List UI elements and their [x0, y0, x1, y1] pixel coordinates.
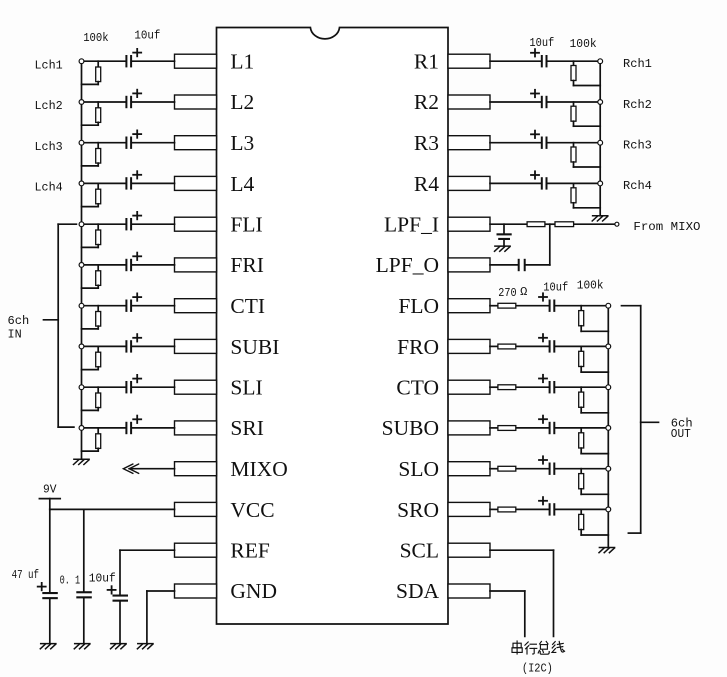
- capacitor 10uf FRO (+ left): [539, 334, 555, 353]
- capacitor 10uf (REF to ground): [108, 550, 128, 643]
- label 47 uf: [12, 568, 39, 582]
- svg-text:SLO: SLO: [398, 457, 439, 481]
- node SUBI on rail: [79, 344, 84, 349]
- label Rch3: [623, 139, 652, 153]
- resistor 100k CTO (to rail): [579, 387, 609, 413]
- pin R1 (right pin box): [448, 54, 490, 68]
- ground (GND pin): [137, 644, 153, 649]
- capacitor 10uf L1 (series coupling, + right): [125, 49, 141, 68]
- wire SLI input row: [82, 386, 175, 388]
- op-amp/audio-processor IC U1 body with pin-1 notch: [217, 28, 449, 625]
- pin label MIXO: [230, 457, 287, 481]
- svg-text:100k: 100k: [577, 279, 604, 293]
- pin label FLI: [230, 213, 262, 237]
- svg-text:R3: R3: [414, 131, 439, 155]
- pin SLO (right pin box): [448, 462, 490, 476]
- node SLO on rail: [606, 466, 611, 471]
- capacitor 10uf FRI (series coupling, + right): [125, 253, 141, 272]
- ground (0.1 cap): [74, 644, 90, 649]
- pin label CTO: [396, 376, 439, 400]
- resistor 100k L4 (to rail): [82, 183, 101, 206]
- node CTO on rail: [606, 385, 611, 390]
- svg-text:R1: R1: [414, 50, 439, 74]
- pin SDA (right pin box): [448, 584, 490, 598]
- resistor 100k SRO (to rail): [579, 509, 609, 535]
- pin L4 (left pin box): [175, 176, 217, 190]
- pin CTI (left pin box): [175, 299, 217, 313]
- pin label SLI: [230, 376, 262, 400]
- pin label L4: [230, 172, 254, 196]
- capacitor (LPF_O feedback): [518, 259, 526, 271]
- pin SUBO (right pin box): [448, 421, 490, 435]
- resistor 100k SRI (to rail): [82, 428, 101, 451]
- resistor 100k CTI (to rail): [82, 306, 101, 329]
- wire R3 row: [490, 142, 600, 144]
- svg-text:LPF_I: LPF_I: [384, 213, 439, 237]
- pin label SDA: [396, 579, 439, 603]
- wire L2 input row: [82, 101, 175, 103]
- label 100k (output resistors): [577, 279, 604, 293]
- pin label SLO: [398, 457, 439, 481]
- svg-text:Rch2: Rch2: [623, 98, 652, 112]
- ground (left rail): [74, 459, 90, 464]
- svg-text:SLI: SLI: [230, 376, 262, 400]
- wire CTI input row: [82, 305, 175, 307]
- resistor 100k R2 (to rail): [571, 102, 600, 126]
- node L1 on rail: [79, 59, 84, 64]
- node SLI on rail: [79, 385, 84, 390]
- resistor 100k R3 (to rail): [571, 143, 600, 167]
- 6ch OUT bracket: [622, 306, 659, 533]
- pin label LPF_I: [384, 213, 439, 237]
- node SRI on rail: [79, 426, 84, 431]
- wire SLO row: [490, 468, 608, 470]
- capacitor 47uf (9V rail to ground): [38, 509, 58, 643]
- node FRI on rail: [79, 263, 84, 268]
- label 10uf (REF cap): [89, 571, 116, 585]
- wire SUBO row: [490, 427, 608, 429]
- resistor 100k L3 (to rail): [82, 143, 101, 166]
- label serial bus (Chinese: chuan xing zong xian) drawn as paths: [512, 641, 565, 654]
- svg-text:Lch3: Lch3: [35, 140, 63, 154]
- pin L1 (left pin box): [175, 54, 217, 68]
- wire LPF_O row: [490, 264, 550, 266]
- node FRO on rail: [606, 344, 611, 349]
- node FLI on rail: [79, 222, 84, 227]
- wire MIXO output with double-chevron arrow: [123, 464, 174, 473]
- label Lch3: [35, 140, 63, 154]
- label 10uf (left capacitors): [134, 29, 160, 43]
- output ground rail: [607, 306, 609, 548]
- label Lch2: [35, 99, 63, 113]
- capacitor 10uf SRO (+ left): [539, 497, 555, 516]
- wire R1 row: [490, 60, 600, 62]
- svg-text:10uf: 10uf: [529, 36, 554, 50]
- svg-text:Lch1: Lch1: [35, 58, 63, 72]
- pin label VCC: [230, 498, 274, 522]
- 6ch IN bracket: [44, 224, 77, 427]
- node SRO on rail: [606, 507, 611, 512]
- svg-text:CTI: CTI: [230, 294, 265, 318]
- resistor 100k SUBI (to rail): [82, 346, 101, 369]
- pin SLI (left pin box): [175, 380, 217, 394]
- svg-text:Lch4: Lch4: [35, 181, 63, 195]
- svg-text:FLO: FLO: [398, 294, 439, 318]
- pin R3 (right pin box): [448, 136, 490, 150]
- capacitor 10uf FLI (series coupling, + right): [125, 212, 141, 231]
- capacitor (LPF_I to ground): [497, 224, 512, 246]
- resistor 100k FRI (to rail): [82, 265, 101, 288]
- pin label LPF_O: [376, 253, 439, 277]
- pin label R1: [414, 50, 439, 74]
- node L3 on rail: [79, 140, 84, 145]
- pin label SUBI: [230, 335, 279, 359]
- node SUBO on rail: [606, 426, 611, 431]
- pin label GND: [230, 579, 277, 603]
- label 10uf (right capacitors): [529, 36, 554, 50]
- pin SRI (left pin box): [175, 421, 217, 435]
- ground (47uf): [40, 644, 56, 649]
- resistor 270ohm FLO (series, horizontal): [498, 303, 516, 308]
- capacitor 10uf SUBI (series coupling, + right): [125, 334, 141, 353]
- resistor 270ohm SRO (series, horizontal): [498, 507, 516, 512]
- label 0.1: [60, 573, 81, 587]
- label 100k (right resistors): [570, 37, 597, 51]
- pin FLI (left pin box): [175, 217, 217, 231]
- ground (right Rch rail): [592, 216, 608, 221]
- svg-text:VCC: VCC: [230, 498, 274, 522]
- resistor 270ohm CTO (series, horizontal): [498, 385, 516, 390]
- pin label FRI: [230, 253, 263, 277]
- svg-text:0. 1: 0. 1: [60, 573, 81, 587]
- resistor (LPF_I second, horizontal): [555, 222, 574, 227]
- pin label L1: [230, 50, 254, 74]
- pin label R4: [414, 172, 439, 196]
- svg-text:47 uf: 47 uf: [12, 568, 39, 582]
- pin SRO (right pin box): [448, 502, 490, 516]
- capacitor 10uf L4 (series coupling, + right): [125, 171, 141, 189]
- pin FRI (left pin box): [175, 258, 217, 272]
- wire R4 row: [490, 182, 600, 184]
- wire GND row: [147, 591, 175, 644]
- pin label R3: [414, 131, 439, 155]
- pin MIXO (left pin box): [175, 462, 217, 476]
- wire REF row: [120, 549, 175, 551]
- pin label L3: [230, 131, 254, 155]
- svg-text:FRO: FRO: [397, 335, 439, 359]
- resistor 100k FLO (to rail): [579, 306, 609, 332]
- ground (output rail): [599, 548, 615, 553]
- label 10uf (output capacitors): [543, 280, 568, 294]
- wire SDA to serial bus: [490, 591, 525, 636]
- node Rch1 on rail: [598, 59, 603, 64]
- resistor 100k SLI (to rail): [82, 387, 101, 410]
- svg-text:From MIXO: From MIXO: [633, 220, 700, 234]
- label Rch4: [623, 179, 652, 193]
- svg-text:Rch1: Rch1: [623, 57, 652, 71]
- pin label FRO: [397, 335, 439, 359]
- pin LPF_O (right pin box): [448, 258, 490, 272]
- svg-text:L4: L4: [230, 172, 254, 196]
- capacitor 10uf SUBO (+ left): [539, 416, 555, 435]
- pin FLO (right pin box): [448, 299, 490, 313]
- capacitor 10uf R2 (+ left): [531, 90, 548, 108]
- resistor (LPF_I first, horizontal): [527, 222, 545, 227]
- svg-text:SUBI: SUBI: [230, 335, 279, 359]
- svg-text:L3: L3: [230, 131, 254, 155]
- svg-text:270: 270: [498, 286, 516, 300]
- svg-text:SUBO: SUBO: [382, 416, 439, 440]
- svg-text:R2: R2: [414, 90, 439, 114]
- capacitor 10uf SLO (+ left): [539, 456, 555, 475]
- right Rch ground rail: [599, 61, 601, 216]
- resistor 100k FRO (to rail): [579, 346, 609, 372]
- capacitor 10uf L2 (series coupling, + right): [125, 90, 141, 109]
- ground (REF cap): [111, 644, 127, 649]
- svg-text:Rch4: Rch4: [623, 179, 652, 193]
- wire FRO row: [490, 345, 608, 347]
- left input ground rail: [81, 61, 83, 459]
- resistor 270ohm SLO (series, horizontal): [498, 466, 516, 471]
- capacitor 10uf R1 (+ left): [531, 49, 548, 67]
- svg-text:MIXO: MIXO: [230, 457, 287, 481]
- pin R2 (right pin box): [448, 95, 490, 109]
- pin VCC (left pin box): [175, 502, 217, 516]
- wire R2 row: [490, 101, 600, 103]
- pin SUBI (left pin box): [175, 339, 217, 353]
- pin L3 (left pin box): [175, 136, 217, 150]
- capacitor 10uf CTI (series coupling, + right): [125, 293, 141, 312]
- wire LPF_I row to From MIXO terminal: [490, 223, 615, 225]
- svg-text:Rch3: Rch3: [623, 139, 652, 153]
- node Rch3 on rail: [598, 140, 603, 145]
- node L4 on rail: [79, 181, 84, 186]
- svg-text:10uf: 10uf: [134, 29, 160, 43]
- resistor 100k L2 (to rail): [82, 102, 101, 125]
- node FLO on rail: [606, 303, 611, 308]
- svg-text:Ω: Ω: [520, 285, 527, 299]
- pin label R2: [414, 90, 439, 114]
- pin label SRO: [397, 498, 439, 522]
- label 100k (left resistors): [83, 31, 108, 45]
- label 6ch OUT: [671, 417, 693, 442]
- resistor 100k L1 (to rail): [82, 61, 101, 84]
- resistor 270ohm SUBO (series, horizontal): [498, 426, 516, 431]
- label Rch2: [623, 98, 652, 112]
- pin GND (left pin box): [175, 584, 217, 598]
- capacitor 10uf L3 (series coupling, + right): [125, 130, 141, 149]
- svg-text:100k: 100k: [570, 37, 597, 51]
- capacitor 10uf SRI (series coupling, + right): [125, 416, 141, 435]
- node From MIXO terminal: [615, 222, 619, 226]
- capacitor 10uf CTO (+ left): [539, 375, 555, 394]
- wire FLO row: [490, 305, 608, 307]
- label Lch1: [35, 58, 63, 72]
- wire L3 input row: [82, 142, 175, 144]
- svg-text:LPF_O: LPF_O: [376, 253, 439, 277]
- wire SUBI input row: [82, 345, 175, 347]
- svg-text:100k: 100k: [83, 31, 108, 45]
- node 9V supply terminal: [39, 483, 60, 499]
- label 6ch IN: [8, 314, 30, 341]
- pin R4 (right pin box): [448, 176, 490, 190]
- pin FRO (right pin box): [448, 339, 490, 353]
- svg-text:10uf: 10uf: [89, 571, 116, 585]
- wire FLI input row: [82, 223, 175, 225]
- node Rch4 on rail: [598, 181, 603, 186]
- pin label SUBO: [382, 416, 439, 440]
- svg-text:OUT: OUT: [671, 428, 691, 441]
- wire L1 input row: [82, 60, 175, 62]
- pin label SRI: [230, 416, 263, 440]
- wire VCC row: [50, 499, 175, 510]
- svg-text:GND: GND: [230, 579, 277, 603]
- node Rch2 on rail: [598, 100, 603, 105]
- svg-text:9V: 9V: [43, 483, 57, 497]
- svg-text:SCL: SCL: [400, 539, 439, 563]
- resistor 100k SUBO (to rail): [579, 428, 609, 454]
- pin label REF: [230, 539, 269, 563]
- svg-text:10uf: 10uf: [543, 280, 568, 294]
- resistor 100k R4 (to rail): [571, 183, 600, 207]
- resistor 100k SLO (to rail): [579, 469, 609, 495]
- svg-text:R4: R4: [414, 172, 439, 196]
- svg-text:L2: L2: [230, 90, 254, 114]
- label 270 ohm (output series resistors): [498, 285, 527, 300]
- wire SCL to serial bus: [490, 550, 554, 636]
- pin L2 (left pin box): [175, 95, 217, 109]
- capacitor 0.1 (VCC decoupling): [76, 509, 92, 643]
- svg-text:(I2C): (I2C): [522, 662, 553, 676]
- pin LPF_I (right pin box): [448, 217, 490, 231]
- ground (LPF_I cap): [495, 246, 511, 251]
- wire L4 input row: [82, 182, 175, 184]
- pin label SCL: [400, 539, 439, 563]
- label From MIXO: [633, 220, 700, 234]
- svg-text:6ch: 6ch: [8, 314, 30, 328]
- node CTI on rail: [79, 303, 84, 308]
- pin CTO (right pin box): [448, 380, 490, 394]
- svg-text:REF: REF: [230, 539, 269, 563]
- wire SRO row: [490, 508, 608, 510]
- svg-text:SRI: SRI: [230, 416, 263, 440]
- label (I2C): [522, 662, 553, 676]
- wire LPF feedback junction down to LPF_O: [549, 224, 551, 265]
- svg-text:CTO: CTO: [396, 376, 439, 400]
- wire CTO row: [490, 386, 608, 388]
- svg-text:FLI: FLI: [230, 213, 262, 237]
- svg-text:FRI: FRI: [230, 253, 263, 277]
- capacitor 10uf FLO (+ left): [539, 293, 555, 312]
- wire FRI input row: [82, 264, 175, 266]
- wire SRI input row: [82, 427, 175, 429]
- pin label L2: [230, 90, 254, 114]
- pin REF (left pin box): [175, 543, 217, 557]
- svg-text:SRO: SRO: [397, 498, 439, 522]
- pin label FLO: [398, 294, 439, 318]
- resistor 270ohm FRO (series, horizontal): [498, 344, 516, 349]
- capacitor 10uf R4 (+ left): [531, 171, 548, 189]
- resistor 100k R1 (to rail): [571, 61, 600, 85]
- pin label CTI: [230, 294, 265, 318]
- capacitor 10uf SLI (series coupling, + right): [125, 375, 141, 394]
- node L2 on rail: [79, 100, 84, 105]
- svg-text:Lch2: Lch2: [35, 99, 63, 113]
- svg-text:SDA: SDA: [396, 579, 439, 603]
- label Rch1: [623, 57, 652, 71]
- svg-text:L1: L1: [230, 50, 254, 74]
- label Lch4: [35, 181, 63, 195]
- resistor 100k FLI (to rail): [82, 224, 101, 247]
- pin SCL (right pin box): [448, 543, 490, 557]
- capacitor 10uf R3 (+ left): [531, 131, 548, 149]
- svg-text:IN: IN: [8, 327, 22, 341]
